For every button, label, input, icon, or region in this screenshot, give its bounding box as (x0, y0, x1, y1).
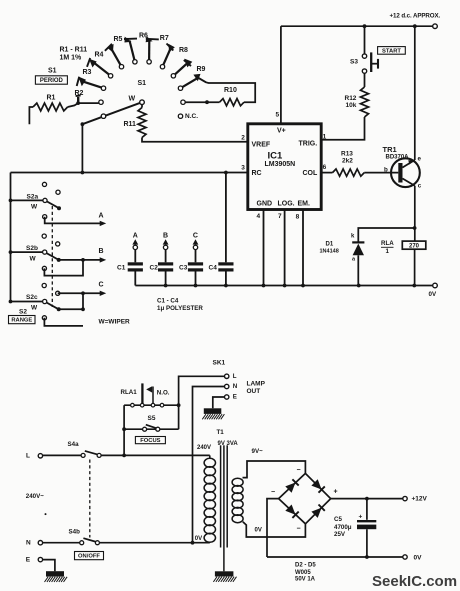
svg-text:W005: W005 (295, 570, 311, 576)
svg-text:SeekIC.com: SeekIC.com (372, 573, 457, 590)
wire RC line (pin 3) (11, 172, 248, 174)
svg-text:W: W (129, 95, 136, 102)
svg-text:R11: R11 (124, 121, 137, 128)
svg-text:240V: 240V (197, 445, 211, 451)
resistor R13 (321, 172, 332, 174)
svg-text:ON/OFF: ON/OFF (78, 554, 100, 560)
svg-text:0V: 0V (195, 536, 202, 542)
svg-text:e: e (418, 156, 422, 163)
svg-text:8: 8 (296, 214, 300, 221)
svg-text:2: 2 (241, 135, 245, 142)
svg-text:R3: R3 (83, 69, 92, 76)
diode D3 (311, 479, 321, 489)
svg-text:+12V: +12V (412, 496, 428, 503)
svg-text:1μ POLYESTER: 1μ POLYESTER (157, 305, 203, 312)
svg-text:240V~: 240V~ (26, 493, 44, 500)
resistor R4 (111, 49, 121, 67)
switch S5 FOCUS (124, 428, 179, 430)
svg-text:6: 6 (323, 164, 327, 171)
svg-text:IC1: IC1 (268, 150, 284, 161)
svg-text:C5: C5 (334, 516, 342, 523)
svg-text:4700μ: 4700μ (334, 524, 352, 531)
terminal mains L (38, 454, 42, 458)
svg-text:S2: S2 (19, 309, 27, 316)
resistor R11 (138, 108, 146, 138)
svg-text:N.C.: N.C. (185, 113, 198, 120)
wire emitter to rail (414, 26, 416, 160)
svg-text:C4: C4 (209, 265, 218, 272)
wire E to earth (43, 560, 55, 572)
wire pin 5 to rail (280, 26, 282, 124)
terminal 0V upper (433, 283, 438, 288)
switch S1 contacts (99, 60, 185, 119)
svg-text:b: b (384, 166, 388, 173)
op-amp timer IC1 LM3905N (248, 124, 321, 210)
svg-text:RC: RC (252, 170, 262, 177)
svg-text:BD370A: BD370A (386, 155, 410, 161)
svg-text:C: C (99, 282, 104, 289)
wire secondary 0V to bridge (243, 522, 306, 537)
svg-text:4: 4 (257, 213, 261, 220)
stray dot (45, 513, 47, 515)
svg-text:0V: 0V (255, 528, 262, 534)
svg-text:COL: COL (303, 170, 319, 177)
svg-text:A: A (99, 213, 104, 220)
resistor R3 (94, 63, 111, 76)
svg-text:FOCUS: FOCUS (140, 438, 160, 444)
diode D5 (311, 508, 321, 518)
capacitor C1 (134, 250, 136, 263)
svg-text:S5: S5 (148, 415, 156, 422)
resistor R6 (148, 40, 150, 62)
svg-text:−: − (297, 526, 301, 533)
wire bridge + output (331, 498, 403, 500)
wire secondary 9V to bridge (243, 461, 306, 478)
capacitor C3 (195, 250, 197, 263)
wire core to earth (223, 548, 225, 572)
svg-text:270: 270 (409, 244, 420, 250)
switch S2c (11, 301, 43, 303)
transformer T1 secondary (232, 478, 243, 486)
svg-text:E: E (26, 557, 31, 564)
svg-text:N: N (233, 383, 238, 390)
svg-text:S4b: S4b (69, 529, 81, 536)
wire left bus (10, 173, 12, 302)
gang dashed link S2 (51, 206, 53, 307)
svg-text:B: B (163, 232, 168, 239)
resistor R1 (29, 107, 33, 124)
switch S3 START (364, 26, 366, 54)
svg-text:START: START (382, 49, 401, 55)
terminal mains N (38, 541, 42, 545)
svg-text:0V: 0V (414, 555, 423, 562)
wire output B (59, 259, 101, 261)
capacitor C2 (165, 250, 167, 263)
svg-text:1N4148: 1N4148 (320, 249, 339, 255)
svg-text:9V~: 9V~ (252, 448, 264, 455)
svg-text:VREF: VREF (252, 141, 271, 148)
resistor R9 (181, 78, 199, 88)
terminal +12V top (433, 24, 438, 29)
svg-text:+: + (334, 489, 338, 496)
wire left link RLA1/S5 (123, 405, 125, 455)
terminal 0V bottom (403, 555, 407, 559)
svg-text:E: E (233, 394, 237, 401)
svg-text:R1 - R11: R1 - R11 (60, 47, 88, 54)
node C above C3 (193, 245, 197, 249)
svg-text:S1: S1 (48, 67, 57, 74)
svg-text:W=WIPER: W=WIPER (99, 319, 131, 326)
svg-text:−: − (297, 467, 301, 474)
svg-text:B: B (99, 248, 104, 255)
svg-text:W: W (31, 204, 38, 211)
gang dashed link S4 (89, 460, 91, 538)
ground earth SK1 (204, 408, 222, 414)
svg-text:R13: R13 (341, 151, 353, 158)
svg-text:S2c: S2c (26, 294, 38, 301)
svg-text:+: + (359, 514, 363, 521)
svg-text:3: 3 (241, 165, 245, 172)
svg-text:R1: R1 (47, 95, 56, 102)
svg-text:S1: S1 (138, 80, 147, 87)
svg-text:R5: R5 (114, 36, 123, 43)
svg-text:W: W (31, 305, 38, 312)
switch S4b (43, 542, 80, 544)
wire pin 4 (263, 210, 265, 286)
svg-text:R12: R12 (345, 95, 357, 102)
svg-text:1M 1%: 1M 1% (60, 54, 83, 61)
svg-text:L: L (26, 453, 30, 460)
svg-text:N.O.: N.O. (157, 389, 170, 396)
svg-text:V+: V+ (277, 127, 286, 134)
svg-text:S4a: S4a (68, 441, 80, 448)
wiper arm S1 (82, 102, 142, 124)
svg-text:C2: C2 (150, 265, 159, 272)
wire R13 to base (364, 172, 398, 174)
wire wiper down to RC line (81, 124, 83, 172)
resistor R2 (84, 82, 104, 88)
svg-text:D1: D1 (326, 242, 334, 248)
svg-text:S3: S3 (350, 59, 358, 66)
svg-text:R10: R10 (224, 87, 237, 94)
wire S4b to transformer 0V (99, 542, 209, 544)
transformer T1 core (220, 445, 222, 547)
junction R1/R2 (76, 101, 80, 105)
svg-text:LOG.: LOG. (278, 201, 295, 208)
junction R10 wire (205, 100, 209, 104)
svg-text:+12 d.c. APPROX.: +12 d.c. APPROX. (390, 13, 441, 20)
svg-text:9V 3VA: 9V 3VA (218, 441, 239, 447)
resistor R5 (130, 41, 135, 62)
capacitor C5 4700u (366, 499, 368, 520)
svg-text:R8: R8 (179, 47, 188, 54)
diode D1 1N4148 (358, 228, 414, 242)
svg-text:2k2: 2k2 (342, 158, 353, 165)
terminal mains E (38, 557, 42, 561)
svg-text:RLA: RLA (381, 240, 394, 247)
svg-text:R6: R6 (139, 33, 148, 40)
wire S4a to transformer (101, 454, 210, 456)
label ON/OFF box (75, 552, 104, 560)
wire collector down (414, 186, 416, 241)
svg-text:10k: 10k (346, 102, 357, 109)
svg-text:R9: R9 (197, 66, 206, 73)
node B above C2 (163, 245, 167, 249)
wire 0V bottom rail (267, 556, 403, 558)
wire relay to 0V rail (414, 249, 416, 285)
svg-text:1: 1 (386, 248, 390, 255)
svg-text:RLA1: RLA1 (121, 389, 138, 396)
label START box (378, 47, 406, 55)
switch S2a (11, 199, 43, 201)
svg-text:S2a: S2a (27, 194, 39, 201)
svg-text:R7: R7 (160, 35, 169, 42)
svg-text:R4: R4 (95, 51, 104, 58)
wire +12V top rail (281, 25, 433, 27)
svg-text:−: − (271, 489, 275, 496)
wire SK1 L (179, 376, 225, 429)
svg-text:TRIG.: TRIG. (299, 141, 318, 148)
svg-text:7: 7 (278, 213, 282, 220)
diode D4 (285, 505, 295, 515)
wire SK1 E to earth (213, 397, 225, 408)
transformer T1 primary (209, 455, 211, 458)
ground earth mains (46, 571, 64, 576)
resistor R12 (364, 73, 366, 87)
svg-text:SK1: SK1 (213, 360, 226, 367)
switch S4a (43, 454, 82, 456)
svg-text:50V 1A: 50V 1A (295, 576, 316, 582)
switch S2b (11, 251, 43, 253)
svg-text:C3: C3 (179, 265, 188, 272)
svg-text:T1: T1 (217, 429, 225, 436)
svg-text:25V: 25V (334, 531, 346, 538)
svg-text:EM.: EM. (298, 201, 311, 208)
wire R12 to TRIG pin 1 (321, 117, 364, 140)
svg-text:c: c (418, 182, 422, 189)
resistor R10 (206, 82, 256, 102)
node W of S1 (140, 100, 145, 105)
resistor R8 (173, 63, 187, 76)
terminal +12V (403, 496, 407, 500)
relay contact RLA1 N.O. (124, 404, 179, 406)
svg-text:L: L (233, 373, 237, 380)
terminal SK1 L (225, 374, 229, 378)
svg-text:PERIOD: PERIOD (40, 78, 64, 84)
svg-text:W: W (30, 255, 37, 262)
svg-text:5: 5 (276, 112, 280, 119)
wire pin 8 (302, 210, 304, 286)
svg-text:D2 - D5: D2 - D5 (295, 562, 316, 568)
terminal SK1 E (225, 395, 229, 399)
capacitor C4 (225, 173, 227, 263)
svg-text:N: N (26, 540, 31, 547)
svg-text:1: 1 (323, 134, 327, 141)
wire SK1 N (193, 387, 225, 543)
svg-text:GND: GND (257, 201, 273, 208)
wire output A (45, 217, 101, 224)
wire 0V rail upper (135, 285, 432, 287)
wire R11 to IC1 pin 2 (142, 138, 248, 142)
wire pin 7 (284, 210, 286, 286)
svg-text:TR1: TR1 (383, 145, 397, 154)
svg-text:RANGE: RANGE (11, 318, 32, 324)
wire bridge - to 0V rail (267, 499, 279, 557)
svg-text:LM3905N: LM3905N (265, 161, 296, 168)
ground earth core (215, 571, 234, 576)
svg-text:0V: 0V (429, 291, 437, 298)
resistor R2 stub (77, 97, 79, 103)
svg-text:LAMP: LAMP (247, 381, 266, 388)
terminal SK1 N (225, 384, 229, 388)
wire output C (58, 292, 101, 294)
svg-text:A: A (133, 232, 138, 239)
svg-text:C1 - C4: C1 - C4 (157, 298, 179, 305)
bridge rectifier D2-D5 (279, 473, 331, 523)
diode D2 (285, 483, 295, 493)
svg-text:C: C (193, 232, 198, 239)
transistor TR1 BD370A (391, 158, 420, 187)
resistor R7 (163, 49, 171, 67)
svg-text:C1: C1 (117, 265, 126, 272)
svg-text:S2b: S2b (26, 245, 38, 252)
svg-text:OUT: OUT (247, 388, 261, 395)
node A above C1 (133, 245, 137, 249)
